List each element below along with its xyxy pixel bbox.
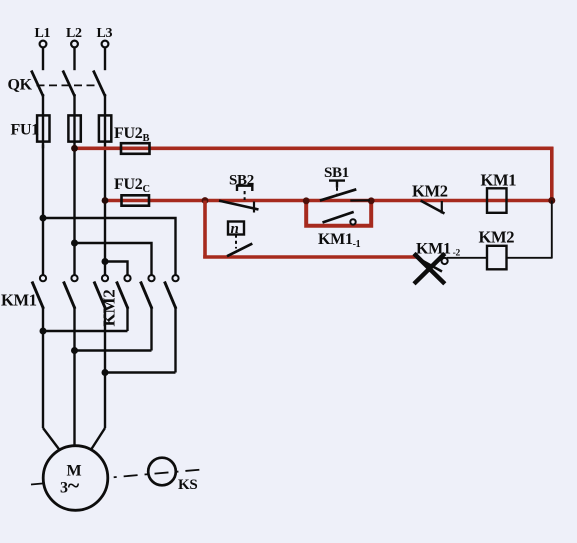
speed contact blade (227, 244, 252, 257)
motor M circle (43, 446, 108, 511)
svg-text:n: n (231, 221, 239, 237)
contact KM2 (NC interlock) blade (421, 201, 445, 214)
svg-text:KM1: KM1 (481, 171, 517, 190)
wire red row 3 (203, 255, 417, 259)
wire L2 column FU1 to KM1 contact (73, 148, 75, 275)
wire red control row 1 (from L2 through FU2B to right) (75, 147, 554, 151)
wire L1 to pole6 top (43, 218, 176, 275)
svg-text:FU1: FU1 (11, 121, 40, 138)
wire pole1 to pole4 bottom (43, 330, 128, 332)
wire motor feed U (43, 428, 60, 451)
contact KM1 pole2 (64, 275, 78, 309)
wire QK to FU1 (L2) (73, 94, 75, 148)
wire pole1 lower column (42, 307, 44, 429)
wire right rail row2 to row3 (551, 201, 553, 259)
contact KM2 stop pin (441, 201, 443, 214)
pushbutton SB2 stop pin (253, 202, 255, 213)
wire QK to FU1 (L3) (104, 94, 106, 201)
switch QK pole 1 blade (31, 71, 43, 97)
node L3 terminal (102, 41, 109, 48)
switch QK pole 2 blade (63, 71, 75, 97)
wire red branch down to row 3 (203, 201, 207, 259)
wire KM2 coil to right rail (506, 257, 552, 259)
contact KM2 pole5 (141, 275, 155, 309)
junction dot pole2 bottom (71, 347, 78, 354)
speed relay KS circle (148, 458, 176, 486)
svg-text:SB1: SB1 (324, 165, 349, 181)
wire pole4 lower stub (126, 307, 128, 332)
svg-text:QK: QK (8, 76, 33, 93)
wire L1 column FU1 to KM1 contact (42, 145, 44, 276)
junction dot branch left (303, 197, 310, 204)
pushbutton SB2 (NC) actuator (237, 186, 252, 191)
junction dot pole1 bottom (40, 328, 47, 335)
junction dot row 2 branch at x=205 (202, 197, 209, 204)
junction dot L2 / row 1 (71, 145, 78, 152)
coil KM2 (487, 246, 507, 269)
svg-text:KM2: KM2 (479, 228, 515, 247)
pushbutton SB1 blade (320, 189, 356, 200)
speed contact link (dashed) (235, 235, 237, 249)
junction dot row1-row2 right corner (548, 197, 555, 204)
contact KM1-2 blade (417, 258, 443, 272)
contact KM1 pole3 (94, 275, 108, 309)
wire L3 to pole4 top (105, 262, 128, 276)
svg-text:L1: L1 (35, 26, 51, 41)
svg-text:KS: KS (178, 477, 197, 493)
junction dot L3 top cross (102, 258, 109, 265)
coil KM1 (487, 188, 507, 213)
wire red right drop (550, 147, 554, 201)
pushbutton SB1 (NO) actuator (329, 181, 345, 188)
contact KM1-1 blade (323, 212, 354, 223)
switch QK pole 3 blade (93, 71, 105, 97)
contact KM2 pole4 (117, 275, 131, 309)
svg-text:L2: L2 (66, 26, 82, 41)
junction dot pole3 bottom (102, 369, 109, 376)
fuse FU1 (L1) (37, 115, 49, 141)
wire pole3 lower column (104, 307, 106, 429)
fuse FU2_B (121, 143, 150, 154)
junction dot L1 top cross (40, 215, 47, 222)
pushbutton SB2 link (dashed) (244, 191, 246, 200)
fuse FU1 (L2) (68, 115, 80, 141)
speed contact n box (228, 222, 244, 235)
wire red control row 2 (from L3 through FU2C to right) (105, 199, 552, 203)
svg-text:KM2: KM2 (100, 290, 119, 327)
fuse FU1 (L3) (99, 115, 111, 141)
pushbutton SB1 fixed terminal stub (350, 199, 370, 201)
wire pole2 lower column (73, 307, 75, 448)
wire L1 drop to QK (42, 47, 44, 70)
wire pole5 lower stub (150, 307, 152, 351)
wire pole2 to pole5 bottom (75, 349, 152, 351)
wire motor feed W (91, 428, 106, 451)
wire QK to FU1 (L1) (42, 94, 44, 148)
wire L2 drop to QK (73, 47, 75, 70)
wire L2 to pole5 top (75, 243, 152, 275)
fuse FU2_C (122, 195, 150, 205)
wire L3 column to KM1 contact (104, 201, 106, 276)
contact KM1-1 terminal circle (350, 219, 355, 224)
contact KM1-2 terminal circle (442, 258, 448, 264)
QK mechanical link (dashed) (37, 84, 99, 86)
svg-text:KM1: KM1 (1, 291, 37, 310)
node L1 terminal (40, 41, 47, 48)
wire red self-hold branch (KM1-1 loop) (306, 201, 371, 226)
svg-text:L3: L3 (97, 26, 113, 41)
junction dot branch right (368, 197, 375, 204)
junction dot L3 / row 2 (102, 197, 109, 204)
wire pole6 lower stub (174, 307, 176, 373)
wire KM1-2 to KM2 coil (447, 257, 487, 259)
contact KM2 pole6 (165, 275, 179, 309)
wire L3 drop to QK (104, 47, 106, 70)
pushbutton SB2 blade (219, 201, 259, 210)
contact KM1 pole1 (32, 275, 46, 309)
svg-text:SB2: SB2 (229, 173, 254, 189)
node L2 terminal (71, 41, 78, 48)
fault cross X over KM1-2 (414, 254, 445, 284)
shaft dash-dot line (31, 470, 202, 485)
svg-text:KM2: KM2 (412, 182, 448, 201)
wire pole3 to pole6 bottom (105, 371, 176, 373)
pushbutton SB1 link (dashed) (336, 188, 338, 196)
junction dot L2 top cross (71, 240, 78, 247)
